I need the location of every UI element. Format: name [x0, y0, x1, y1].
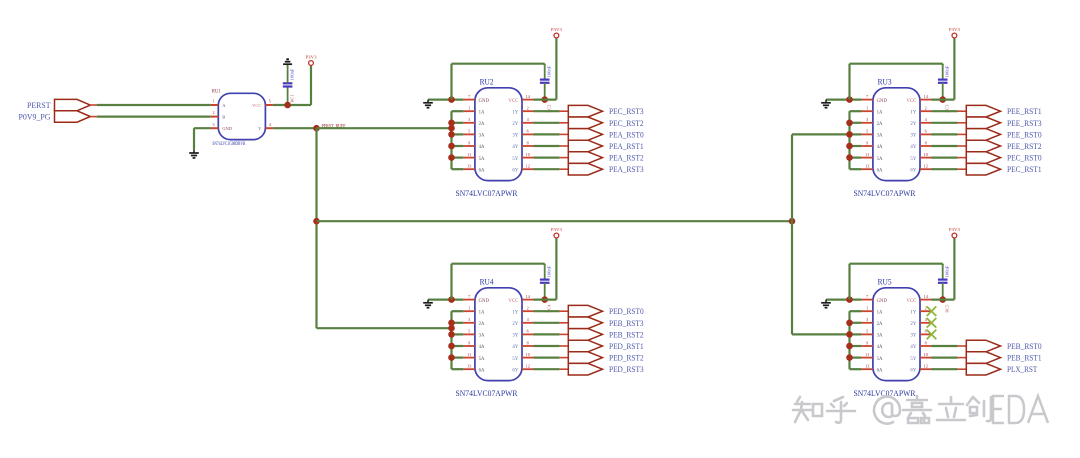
svg-text:2Y: 2Y — [910, 122, 916, 127]
output port PEA_RST2 — [560, 152, 644, 164]
svg-text:1: 1 — [468, 306, 470, 311]
wire PERST_BUFF to RU3 — [792, 133, 850, 135]
svg-text:RU3: RU3 — [878, 77, 892, 87]
svg-text:VCC: VCC — [508, 99, 518, 104]
svg-text:5Y: 5Y — [512, 157, 518, 162]
hex buffer IC RU4 SN74LVC07APWR — [456, 277, 534, 398]
wire — [534, 168, 560, 170]
svg-text:GND: GND — [479, 299, 490, 304]
power P3V3 RU1 — [306, 55, 318, 66]
output port PED_RST1 — [560, 340, 644, 352]
wire PERST to RU1.A — [90, 104, 97, 106]
svg-text:PEC_RST1: PEC_RST1 — [1007, 164, 1042, 174]
svg-text:GND: GND — [479, 99, 490, 104]
wire — [932, 157, 958, 159]
junction — [789, 218, 796, 225]
output port PEB_RST2 — [560, 329, 644, 341]
svg-text:3Y: 3Y — [910, 334, 916, 339]
svg-text:10: 10 — [526, 352, 530, 357]
wire — [932, 133, 958, 135]
svg-text:12: 12 — [526, 164, 530, 169]
output port PEB_RST3 — [560, 317, 644, 329]
ground — [423, 300, 433, 308]
wire — [97, 115, 211, 117]
svg-text:6A: 6A — [877, 368, 883, 373]
junction — [939, 296, 946, 303]
power P3V3 RU3 — [949, 27, 961, 38]
wire — [452, 168, 464, 170]
input port PERST — [27, 99, 90, 110]
svg-text:3: 3 — [212, 122, 214, 127]
svg-text:1: 1 — [866, 106, 868, 111]
svg-text:2: 2 — [925, 106, 927, 111]
svg-text:100nF: 100nF — [945, 265, 950, 278]
svg-text:2A: 2A — [877, 122, 883, 127]
wire — [932, 168, 958, 170]
wire — [534, 310, 560, 312]
svg-text:1: 1 — [212, 99, 214, 104]
wire — [534, 333, 560, 335]
output port PEE_RST0 — [958, 129, 1042, 141]
svg-text:PEE_RST3: PEE_RST3 — [1007, 118, 1042, 128]
svg-text:VCC: VCC — [508, 299, 518, 304]
svg-text:PEB_RST2: PEB_RST2 — [609, 329, 644, 339]
junction — [846, 343, 853, 350]
ground — [821, 100, 831, 108]
svg-text:8: 8 — [527, 140, 529, 145]
wire RU3.VCC — [932, 38, 955, 100]
svg-text:VCC: VCC — [252, 103, 261, 108]
wire — [534, 357, 560, 359]
junction — [846, 331, 853, 338]
junction — [448, 131, 455, 138]
junction — [448, 125, 455, 132]
output port PED_RST3 — [560, 363, 644, 375]
svg-text:14: 14 — [924, 294, 929, 299]
svg-text:3: 3 — [468, 317, 470, 322]
output port PEE_RST2 — [958, 140, 1042, 152]
svg-text:3: 3 — [866, 317, 868, 322]
wire — [850, 110, 862, 112]
junction — [448, 154, 455, 161]
output port PEA_RST0 — [560, 129, 644, 141]
wire RU4.GND — [428, 299, 463, 301]
svg-text:1: 1 — [468, 106, 470, 111]
wire GND loop to cap — [452, 264, 545, 300]
wire RU3.GND — [826, 98, 861, 100]
svg-text:PED_RST2: PED_RST2 — [609, 353, 644, 363]
svg-text:SN74LVC07APWR: SN74LVC07APWR — [854, 188, 916, 198]
wire RU5.GND — [826, 299, 861, 301]
svg-text:10: 10 — [526, 152, 530, 157]
svg-text:PEA_RST1: PEA_RST1 — [609, 141, 644, 151]
buffer IC RU1 SN74LVC1G08DBVR — [211, 89, 273, 147]
svg-text:RU1: RU1 — [212, 89, 221, 94]
svg-text:7: 7 — [468, 94, 470, 99]
svg-text:PEC_RST0: PEC_RST0 — [1007, 153, 1042, 163]
wire — [97, 104, 211, 106]
hex buffer IC RU3 SN74LVC07APWR — [854, 77, 932, 198]
wire — [850, 168, 862, 170]
svg-text:7: 7 — [866, 94, 868, 99]
svg-text:6Y: 6Y — [512, 368, 518, 373]
svg-text:6Y: 6Y — [910, 368, 916, 373]
wire — [452, 322, 464, 324]
svg-text:13: 13 — [467, 164, 471, 169]
svg-text:2A: 2A — [877, 322, 883, 327]
svg-text:PED_RST3: PED_RST3 — [609, 364, 644, 374]
svg-text:PEE_RST0: PEE_RST0 — [1007, 129, 1042, 139]
wire — [850, 122, 862, 124]
svg-text:SN74LVC07APWR: SN74LVC07APWR — [456, 388, 518, 398]
wire — [452, 333, 464, 335]
svg-text:P0V9_PG: P0V9_PG — [19, 112, 51, 122]
wire — [850, 145, 862, 147]
svg-text:3A: 3A — [479, 334, 485, 339]
svg-text:PEB_RST3: PEB_RST3 — [609, 318, 644, 328]
svg-text:1Y: 1Y — [910, 110, 916, 115]
svg-text:10: 10 — [924, 152, 928, 157]
svg-text:9: 9 — [866, 340, 868, 345]
svg-text:4Y: 4Y — [512, 345, 518, 350]
svg-text:4: 4 — [527, 117, 530, 122]
svg-text:4: 4 — [527, 317, 530, 322]
junction — [846, 143, 853, 150]
svg-text:P3V3: P3V3 — [949, 27, 961, 32]
output port PEC_RST0 — [958, 152, 1042, 164]
svg-text:PEA_RST2: PEA_RST2 — [609, 153, 644, 163]
ground — [821, 300, 831, 308]
svg-text:13: 13 — [467, 364, 471, 369]
svg-text:12: 12 — [526, 364, 530, 369]
wire — [452, 310, 464, 312]
svg-text:6: 6 — [925, 329, 927, 334]
junction — [541, 96, 548, 103]
svg-text:5: 5 — [468, 329, 470, 334]
junction — [846, 296, 853, 303]
junction — [313, 218, 320, 225]
wire — [850, 322, 862, 324]
svg-text:PED_RST1: PED_RST1 — [609, 341, 644, 351]
svg-text:2Y: 2Y — [910, 322, 916, 327]
svg-text:RC1: RC1 — [290, 95, 295, 103]
capacitor RC2 100nF — [540, 65, 552, 113]
svg-text:PEA_RST3: PEA_RST3 — [609, 164, 644, 174]
svg-text:PEB_RST1: PEB_RST1 — [1007, 353, 1042, 363]
svg-text:PEC_RST2: PEC_RST2 — [609, 118, 644, 128]
svg-text:7: 7 — [468, 294, 470, 299]
svg-text:2Y: 2Y — [512, 322, 518, 327]
wire — [850, 345, 862, 347]
svg-text:1Y: 1Y — [512, 310, 518, 315]
svg-text:2: 2 — [527, 106, 529, 111]
svg-text:6: 6 — [527, 329, 529, 334]
svg-text:4: 4 — [925, 117, 928, 122]
wire — [932, 345, 958, 347]
wire — [534, 133, 560, 135]
wire — [452, 357, 464, 359]
svg-text:6Y: 6Y — [512, 168, 518, 173]
capacitor RC5 100nF — [938, 265, 950, 313]
svg-text:11: 11 — [467, 152, 471, 157]
no-connect flag — [927, 318, 937, 328]
junction — [448, 296, 455, 303]
junction — [448, 120, 455, 127]
junction — [448, 320, 455, 327]
svg-text:PED_RST0: PED_RST0 — [609, 306, 644, 316]
svg-text:6A: 6A — [479, 368, 485, 373]
input port P0V9_PG — [19, 111, 91, 122]
svg-text:4: 4 — [269, 122, 272, 127]
svg-text:2: 2 — [527, 306, 529, 311]
junction — [846, 154, 853, 161]
svg-text:1Y: 1Y — [910, 310, 916, 315]
svg-text:7: 7 — [866, 294, 868, 299]
svg-text:6A: 6A — [479, 168, 485, 173]
svg-text:3: 3 — [468, 117, 470, 122]
output port PEA_RST1 — [560, 140, 644, 152]
power P3V3 RU4 — [551, 227, 563, 238]
wire — [452, 122, 464, 124]
svg-text:P3V3: P3V3 — [949, 227, 961, 232]
svg-text:11: 11 — [467, 352, 471, 357]
svg-text:100nF: 100nF — [290, 68, 295, 81]
svg-text:100nF: 100nF — [547, 65, 552, 78]
output port PLX_RST — [958, 363, 1038, 375]
power P3V3 RU5 — [949, 227, 961, 238]
svg-text:4Y: 4Y — [512, 145, 518, 150]
wire — [452, 157, 464, 159]
capacitor RC1 100nF — [283, 65, 295, 105]
hex buffer IC RU5 SN74LVC07APWR — [854, 277, 932, 398]
no-connect flag — [927, 306, 937, 316]
junction — [448, 343, 455, 350]
svg-text:1A: 1A — [479, 310, 485, 315]
svg-text:14: 14 — [924, 94, 929, 99]
svg-text:GND: GND — [877, 299, 888, 304]
svg-text:RU5: RU5 — [878, 277, 892, 287]
junction — [846, 96, 853, 103]
wire — [534, 345, 560, 347]
svg-text:6A: 6A — [877, 168, 883, 173]
junction — [448, 331, 455, 338]
svg-text:P3V3: P3V3 — [306, 55, 318, 60]
svg-text:4A: 4A — [479, 345, 485, 350]
svg-text:PEE_RST2: PEE_RST2 — [1007, 141, 1042, 151]
output port PEE_RST3 — [958, 117, 1042, 129]
wire PERST_BUFF bus — [317, 220, 793, 222]
junction — [448, 96, 455, 103]
svg-text:13: 13 — [865, 364, 869, 369]
svg-text:3Y: 3Y — [910, 134, 916, 139]
svg-text:P3V3: P3V3 — [551, 227, 563, 232]
hex buffer IC RU2 SN74LVC07APWR — [456, 77, 534, 198]
junction — [846, 120, 853, 127]
wire — [452, 110, 464, 112]
wire PERST_BUFF to RU5 — [792, 333, 850, 335]
svg-text:2: 2 — [212, 110, 214, 115]
wire RU1.GND — [194, 128, 211, 150]
svg-text:8: 8 — [527, 340, 529, 345]
junction — [846, 320, 853, 327]
ground — [423, 100, 433, 108]
svg-text:GND: GND — [877, 99, 888, 104]
svg-text:100nF: 100nF — [945, 65, 950, 78]
output port PEB_RST1 — [958, 352, 1042, 364]
svg-text:1A: 1A — [479, 110, 485, 115]
wire RU4.VCC — [534, 238, 557, 300]
svg-text:5Y: 5Y — [910, 357, 916, 362]
junction — [846, 131, 853, 138]
output port PEE_RST1 — [958, 105, 1042, 117]
svg-text:9: 9 — [468, 140, 470, 145]
wire input rail — [450, 311, 452, 369]
wire RU5.VCC — [932, 238, 955, 300]
output port PED_RST0 — [560, 305, 644, 317]
output port PEA_RST3 — [560, 163, 644, 175]
svg-text:3A: 3A — [877, 134, 883, 139]
svg-text:9: 9 — [866, 140, 868, 145]
wire RU2.VCC — [534, 38, 557, 100]
wire — [932, 122, 958, 124]
svg-text:5A: 5A — [479, 157, 485, 162]
wire — [932, 357, 958, 359]
svg-text:2A: 2A — [479, 122, 485, 127]
svg-text:1Y: 1Y — [512, 110, 518, 115]
wire — [534, 110, 560, 112]
wire GND loop to cap — [452, 64, 545, 100]
ground — [189, 150, 199, 158]
svg-text:8: 8 — [925, 340, 927, 345]
wire — [534, 322, 560, 324]
svg-text:RU2: RU2 — [480, 77, 494, 87]
svg-text:P3V3: P3V3 — [551, 27, 563, 32]
wire input rail — [848, 111, 850, 169]
svg-text:GND: GND — [222, 126, 232, 131]
svg-text:2: 2 — [925, 306, 927, 311]
svg-text:14: 14 — [526, 294, 531, 299]
junction — [448, 143, 455, 150]
svg-text:5: 5 — [866, 329, 868, 334]
svg-text:6Y: 6Y — [910, 168, 916, 173]
svg-text:12: 12 — [924, 364, 928, 369]
wire — [534, 157, 560, 159]
output port PEB_RST0 — [958, 340, 1042, 352]
ground — [283, 59, 292, 65]
svg-text:B: B — [222, 114, 225, 119]
svg-text:PLX_RST: PLX_RST — [1007, 364, 1038, 374]
svg-text:6: 6 — [527, 129, 529, 134]
svg-text:4Y: 4Y — [910, 145, 916, 150]
svg-text:4A: 4A — [877, 145, 883, 150]
output port PEC_RST3 — [560, 105, 644, 117]
svg-text:5Y: 5Y — [910, 157, 916, 162]
svg-text:4Y: 4Y — [910, 345, 916, 350]
svg-text:100nF: 100nF — [547, 265, 552, 278]
junction — [939, 96, 946, 103]
wire GND loop to cap — [850, 64, 943, 100]
wire — [850, 157, 862, 159]
svg-text:2Y: 2Y — [512, 122, 518, 127]
svg-text:5A: 5A — [479, 357, 485, 362]
no-connect flag — [927, 330, 937, 340]
wire — [452, 345, 464, 347]
svg-text:3A: 3A — [877, 334, 883, 339]
svg-text:2A: 2A — [479, 322, 485, 327]
svg-text:6: 6 — [925, 129, 927, 134]
wire — [534, 145, 560, 147]
svg-text:13: 13 — [865, 164, 869, 169]
power P3V3 RU2 — [551, 27, 563, 38]
junction — [846, 354, 853, 361]
junction — [448, 325, 455, 332]
svg-text:12: 12 — [924, 164, 928, 169]
wire — [850, 333, 862, 335]
svg-text:PEC_RST3: PEC_RST3 — [609, 106, 644, 116]
wire RU1.VCC — [273, 104, 311, 106]
wire GND loop to cap — [850, 264, 943, 300]
svg-text:5Y: 5Y — [512, 357, 518, 362]
wire — [310, 65, 312, 105]
svg-text:5A: 5A — [877, 157, 883, 162]
svg-text:RC5: RC5 — [945, 305, 950, 313]
svg-text:8: 8 — [925, 140, 927, 145]
svg-text:1A: 1A — [877, 110, 883, 115]
svg-text:4A: 4A — [479, 145, 485, 150]
output port PED_RST2 — [560, 352, 644, 364]
svg-text:5: 5 — [866, 129, 868, 134]
output port PEC_RST1 — [958, 163, 1042, 175]
wire — [850, 357, 862, 359]
svg-text:VCC: VCC — [906, 99, 916, 104]
svg-text:14: 14 — [526, 94, 531, 99]
output port PEC_RST2 — [560, 117, 644, 129]
wire P0V9_PG to RU1.B — [90, 116, 97, 118]
wire — [534, 122, 560, 124]
wire — [850, 133, 862, 135]
watermark 知乎 @嘉立创EDA — [793, 396, 1048, 424]
wire — [534, 368, 560, 370]
junction — [448, 354, 455, 361]
junction — [313, 125, 320, 132]
junction — [284, 102, 291, 109]
svg-text:5A: 5A — [877, 357, 883, 362]
wire PERST_BUFF vertical — [315, 128, 317, 328]
svg-text:RU4: RU4 — [480, 277, 495, 287]
wire — [452, 145, 464, 147]
junction — [541, 296, 548, 303]
wire input rail — [450, 111, 452, 169]
wire — [850, 368, 862, 370]
svg-text:11: 11 — [865, 152, 869, 157]
svg-text:PEA_RST0: PEA_RST0 — [609, 129, 644, 139]
wire — [932, 145, 958, 147]
svg-text:VCC: VCC — [906, 299, 916, 304]
svg-text:3: 3 — [866, 117, 868, 122]
svg-text:SN74LVC07APWR: SN74LVC07APWR — [456, 188, 518, 198]
wire — [452, 368, 464, 370]
svg-text:10: 10 — [924, 352, 928, 357]
svg-text:9: 9 — [468, 340, 470, 345]
wire PERST_BUFF right vertical — [791, 134, 793, 334]
wire — [452, 133, 464, 135]
svg-text:PEB_RST0: PEB_RST0 — [1007, 341, 1042, 351]
svg-text:3A: 3A — [479, 134, 485, 139]
svg-text:5: 5 — [269, 99, 271, 104]
wire — [850, 310, 862, 312]
wire RU2.GND — [428, 98, 463, 100]
wire — [932, 368, 958, 370]
